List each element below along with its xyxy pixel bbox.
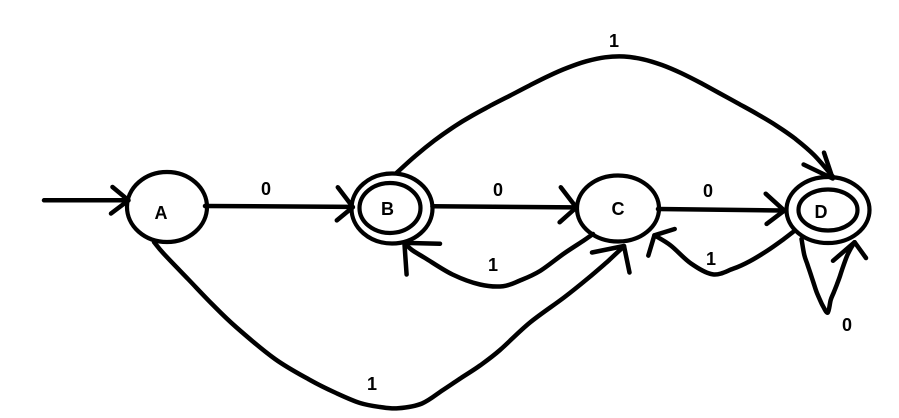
- svg-text:0: 0: [842, 315, 852, 335]
- arrowhead at C (from B): [560, 187, 577, 222]
- state D inner circle: [799, 190, 858, 231]
- svg-text:C: C: [612, 199, 625, 219]
- start arrowhead: [111, 187, 129, 214]
- svg-text:A: A: [155, 203, 168, 223]
- arrowhead at C (from D): [648, 229, 674, 256]
- arrowhead at D (from B): [804, 153, 833, 179]
- svg-text:0: 0: [493, 180, 503, 200]
- arrowhead at D (from C): [766, 194, 785, 224]
- self loop on D: [802, 239, 855, 313]
- arrowhead at B (from C): [404, 243, 440, 275]
- state C circle: [577, 176, 659, 242]
- wire A to C (big bottom curve): [154, 242, 624, 408]
- state A circle: [127, 172, 207, 242]
- wire D to C (lower curve): [654, 232, 793, 275]
- svg-text:1: 1: [488, 255, 498, 275]
- svg-text:1: 1: [367, 374, 377, 394]
- state B outer circle: [352, 174, 433, 244]
- arrowhead at D (self loop): [833, 242, 866, 261]
- arrowhead at C (from A): [592, 246, 630, 273]
- state B inner circle: [360, 183, 421, 233]
- wire B to D (top curve): [397, 56, 833, 176]
- wire A to B: [205, 204, 350, 209]
- svg-text:1: 1: [609, 31, 619, 51]
- state D outer circle: [787, 177, 870, 243]
- wire B to C: [433, 206, 575, 207]
- svg-text:D: D: [815, 202, 828, 222]
- wire C to D: [658, 209, 782, 211]
- start arrow shaft: [44, 198, 126, 203]
- svg-text:0: 0: [703, 181, 713, 201]
- svg-text:B: B: [381, 199, 394, 219]
- wire C to B (lower curve): [404, 234, 593, 287]
- svg-text:1: 1: [706, 249, 716, 269]
- svg-text:0: 0: [261, 179, 271, 199]
- arrowhead at B (from A): [337, 187, 353, 220]
